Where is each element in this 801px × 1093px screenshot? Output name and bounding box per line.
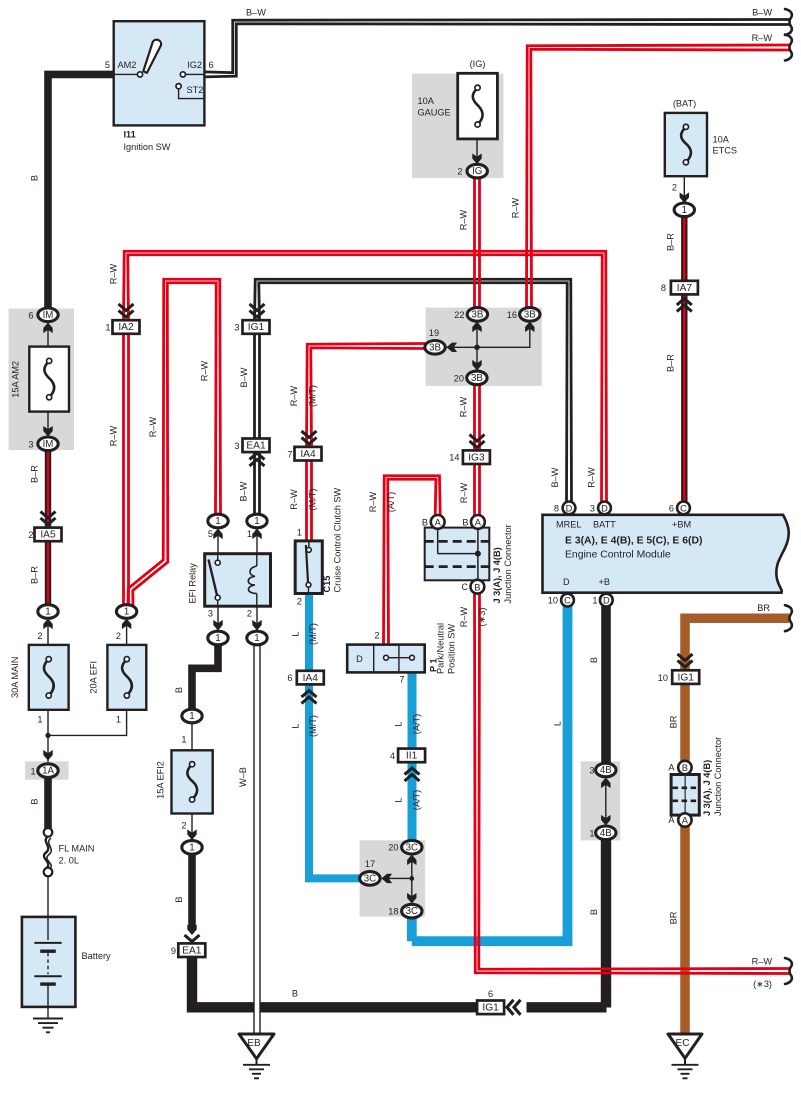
svg-text:Cruise Control Clutch SW: Cruise Control Clutch SW — [333, 488, 343, 593]
svg-text:1: 1 — [589, 829, 594, 839]
wire L (blue) from junction 18 3C down to corner — [407, 915, 417, 941]
chevrons into connector 3 IG1 — [250, 311, 265, 318]
svg-text:6: 6 — [209, 60, 214, 70]
svg-text:15A EFI2: 15A EFI2 — [156, 761, 166, 799]
svg-text:B: B — [174, 896, 184, 902]
link line oval 1 to fuse 30A MAIN — [47, 617, 49, 645]
arrow into EFI relay oval 1 (pin 1) — [252, 529, 261, 540]
arrow into connector 1A — [43, 750, 52, 761]
svg-text:R–W: R–W — [148, 416, 158, 437]
svg-text:(A/T): (A/T) — [412, 714, 422, 734]
wire BR (brown) battery feed from right edge down to connector 10 IG1 — [685, 618, 789, 671]
svg-text:B: B — [422, 517, 428, 527]
svg-text:IA5: IA5 — [40, 530, 56, 541]
ECM pin circle C (10, D terminal) — [561, 594, 574, 607]
rect connector 14 IG3 — [463, 450, 490, 464]
3B internal link 19 to junction dot to 22, 16, 20 — [446, 322, 530, 348]
arrow into oval IG below 10A GAUGE — [472, 153, 481, 164]
wire B-W from connector 3 EA1 to EFI relay pin 1 coil — [258, 452, 261, 515]
junction oval 1 4B — [596, 826, 616, 840]
arrow into junction oval 19 3B — [447, 343, 458, 352]
svg-text:R–W: R–W — [368, 491, 378, 512]
ECM pin circle D (1, +B terminal) — [600, 594, 613, 607]
svg-text:R–W: R–W — [200, 360, 210, 381]
rect connector 6 IA4 (blue) — [297, 671, 324, 685]
svg-text:B–R: B–R — [30, 465, 40, 483]
ignition switch I11 box — [114, 21, 205, 125]
link line oval 1 to fuse 20A EFI — [126, 617, 128, 645]
oval connector 6 IM — [38, 308, 58, 322]
svg-text:(A/T): (A/T) — [386, 492, 396, 512]
park/neutral position switch P1 box — [347, 645, 425, 673]
shaded box for 3C junction block — [360, 840, 426, 916]
wire L (blue) from connector 6 IA4 down and right to junction 17 3C — [309, 684, 361, 878]
rect connector 3 EA1 — [243, 439, 270, 453]
svg-text:D: D — [566, 504, 573, 514]
svg-text:IG1: IG1 — [482, 1003, 499, 1014]
svg-text:5: 5 — [208, 529, 213, 539]
ground EB triangle — [239, 1034, 274, 1059]
oval connector 1 below fuse 15A EFI2 — [182, 841, 202, 855]
svg-text:+BM: +BM — [672, 520, 691, 530]
arrow into fuse block oval 3 IM — [43, 426, 52, 437]
arrow into junction oval 16 3B — [525, 322, 534, 333]
svg-text:D: D — [563, 577, 570, 587]
wire B from fuse 15A EFI2 to connector EA1 pin 9 — [188, 851, 196, 930]
svg-text:A: A — [668, 762, 675, 772]
svg-text:IG2: IG2 — [187, 60, 202, 70]
wire L (blue) from P1 park/neutral switch pin 7 to connector 4 II1 — [408, 672, 417, 750]
svg-text:(BAT): (BAT) — [673, 99, 696, 109]
wire BR (brown) from junction connector J3/J4 oval A down to ground EC — [680, 818, 690, 1034]
wire R-W bus from connector 1 IA2 to ECM BATT — [124, 251, 607, 502]
EFI relay switch contact — [217, 554, 219, 560]
svg-text:9: 9 — [171, 946, 176, 956]
svg-text:2: 2 — [672, 183, 677, 193]
oval EFI relay pin 1 connector 1 — [247, 514, 267, 528]
svg-text:1: 1 — [254, 633, 259, 644]
svg-text:B: B — [174, 687, 184, 693]
svg-text:2: 2 — [28, 530, 33, 540]
arrow into EFI relay oval 1 (pin 3) — [213, 620, 222, 631]
shaded box for 4B junction block — [581, 761, 621, 840]
svg-text:EC: EC — [676, 1038, 690, 1049]
3C internal link 17 to junction dot to 20, 18 — [381, 877, 412, 879]
EFI relay box — [205, 554, 271, 607]
chevrons into connector 6 IG1 (black, pointing left) — [507, 1000, 514, 1015]
arrow into fuse block oval 6 IM — [43, 323, 52, 334]
svg-text:EA1: EA1 — [246, 441, 266, 452]
svg-text:C: C — [564, 596, 571, 606]
wire BR (brown) from connector 10 IG1 to junction connector J3/J4 oval B — [680, 684, 690, 769]
svg-text:D: D — [603, 596, 610, 606]
4B internal link between ovals 3 and 1 — [605, 777, 607, 826]
chevrons into connector 3 EA1 from below — [250, 453, 265, 460]
junction oval 3 4B — [596, 763, 616, 777]
svg-text:FL MAIN: FL MAIN — [59, 844, 95, 854]
svg-text:IA2: IA2 — [118, 322, 134, 333]
svg-text:B–W: B–W — [550, 467, 560, 487]
svg-text:GAUGE: GAUGE — [418, 108, 451, 118]
rect connector 10 IG1 (brown) — [672, 670, 699, 684]
svg-text:2: 2 — [116, 631, 121, 641]
svg-text:8: 8 — [554, 504, 559, 514]
oval connector IG below 10A GAUGE — [467, 164, 487, 178]
J3/J4 internal links — [437, 528, 439, 554]
wire B-R from connector 8 IA7 to ECM +BM — [681, 295, 687, 502]
link line oval 1 to fuse 15A EFI2 pin 1 — [191, 722, 193, 751]
svg-text:(M/T): (M/T) — [308, 715, 318, 737]
svg-text:II1: II1 — [406, 751, 418, 762]
fusible link FL MAIN 2.0L — [44, 828, 53, 837]
wire R-W (A/T) hairpin from J3/J4 oval A to P1 park/neutral switch pin 2 — [388, 479, 436, 646]
svg-text:R–W: R–W — [109, 263, 119, 284]
wire L (blue) from ECM pin C down to 3C junction — [412, 603, 568, 941]
svg-text:Park/Neutral: Park/Neutral — [436, 623, 446, 674]
svg-text:IA4: IA4 — [300, 449, 316, 460]
svg-text:2: 2 — [374, 631, 379, 641]
svg-text:B: B — [30, 798, 40, 804]
svg-text:B–W: B–W — [246, 8, 266, 18]
junction oval 20 3B — [467, 371, 487, 385]
junction dot below 30A MAIN — [45, 733, 50, 738]
link line EFI relay pin 2 to oval 1 — [256, 606, 258, 632]
svg-text:1: 1 — [124, 607, 129, 618]
wire B from ignition switch AM2 down to fuse block IM pin 6 — [48, 74, 115, 309]
rect connector 7 IA4 — [295, 447, 322, 461]
link line junction dot to connector 1A — [47, 735, 49, 762]
svg-text:3B: 3B — [429, 342, 441, 353]
junction connector J3/J4 box (left) — [425, 528, 490, 581]
arrow into junction oval 17 3C — [382, 874, 393, 883]
svg-text:R–W: R–W — [459, 396, 469, 417]
arrow into junction oval 20 3C — [407, 855, 416, 866]
wire R-W (M/T) from junction 19 3B to connector 7 IA4 — [311, 348, 426, 447]
C15 switch contact — [308, 541, 310, 548]
wire R-W (M/T) from connector 7 IA4 to cruise clutch switch C15 pin 1 — [310, 461, 313, 543]
svg-text:EFI Relay: EFI Relay — [188, 563, 198, 604]
wire L (blue) from connector 4 II1 to junction 20 3C — [408, 762, 417, 842]
wire R-W hairpin from EFI relay pin 5 up and back down to 20A EFI connector — [133, 283, 216, 606]
link line fuse 15A AM2 to IM 3 oval — [47, 412, 49, 438]
svg-text:BATT: BATT — [593, 520, 616, 530]
svg-text:10: 10 — [658, 673, 668, 683]
link line fuse 20A EFI to junction dot — [48, 710, 127, 736]
rect connector 9 EA1 — [178, 943, 205, 957]
J3/J4 pin circle B (to *3) — [471, 580, 485, 594]
ground EC triangle — [668, 1034, 702, 1058]
svg-text:R–W: R–W — [752, 33, 773, 43]
svg-text:BR: BR — [757, 603, 770, 613]
svg-text:R–W: R–W — [459, 482, 469, 503]
arrow into junction oval 1 4B — [601, 815, 610, 826]
svg-text:J 3(A), J 4(B): J 3(A), J 4(B) — [492, 547, 502, 603]
wire R-W from junction 20 3B to connector 14 IG3 — [478, 384, 481, 451]
svg-text:(∗3): (∗3) — [753, 979, 772, 989]
rect connector 1 IA2 — [113, 320, 140, 334]
svg-text:A: A — [435, 518, 442, 528]
wire R-W top horizontal from right edge continuation to junction 16 3B — [531, 49, 790, 308]
svg-text:15A AM2: 15A AM2 — [11, 361, 21, 398]
J3/J4 pin circle A (from IG3) — [471, 515, 485, 529]
svg-text:B–R: B–R — [666, 233, 676, 251]
svg-text:3B: 3B — [471, 310, 483, 321]
link line FL MAIN to battery — [47, 875, 49, 918]
svg-text:18: 18 — [388, 907, 398, 917]
svg-text:1: 1 — [116, 715, 121, 725]
wire B-R from fuse block IM pin 3 to connector 2 IA5 — [45, 450, 51, 528]
svg-text:ETCS: ETCS — [713, 146, 738, 156]
svg-text:16: 16 — [507, 310, 517, 320]
link line EFI relay pin 1 to oval 1 — [256, 527, 258, 554]
arrow into junction oval 20 3B — [472, 360, 481, 371]
chevrons into connector 10 IG1 (brown) — [678, 661, 693, 668]
svg-text:10A: 10A — [713, 135, 730, 145]
oval EFI relay pin 5 connector 1 — [208, 514, 228, 528]
link line EFI relay pin 5 to oval 1 — [217, 527, 219, 554]
svg-text:BR: BR — [669, 715, 679, 728]
svg-text:1: 1 — [254, 516, 259, 527]
fuse 10A ETCS — [665, 113, 707, 176]
link line fuse 15A EFI2 pin 2 to oval 1 — [191, 814, 193, 842]
engine control module ECM box — [543, 515, 789, 593]
P1 internal contact line — [388, 657, 410, 659]
svg-text:3B: 3B — [471, 373, 483, 384]
battery internal symbol — [47, 917, 49, 940]
svg-text:R–W: R–W — [459, 606, 469, 627]
rect connector 8 IA7 — [671, 281, 698, 295]
svg-text:1: 1 — [30, 766, 35, 776]
rect connector 3 IG1 — [243, 320, 270, 334]
svg-text:IM: IM — [43, 310, 54, 321]
svg-text:R–W: R–W — [289, 489, 299, 510]
svg-text:IA4: IA4 — [303, 673, 319, 684]
svg-text:B–W: B–W — [752, 8, 772, 18]
J3/J4 right pin circle B — [678, 761, 691, 774]
shaded box for 10A GAUGE fuse — [412, 74, 503, 178]
svg-text:1: 1 — [592, 596, 597, 606]
svg-text:2: 2 — [247, 609, 252, 619]
wire R-W from connector 1 IA2 down to 20A EFI connector oval 1 — [127, 334, 130, 607]
svg-text:R–W: R–W — [587, 467, 597, 488]
svg-text:A: A — [475, 518, 482, 528]
svg-text:EB: EB — [247, 1038, 261, 1049]
svg-text:R–W: R–W — [289, 385, 299, 406]
oval connector 1 above 30A MAIN — [38, 605, 58, 619]
svg-text:3C: 3C — [406, 842, 418, 853]
fuse 10A GAUGE — [458, 73, 498, 139]
svg-text:L: L — [394, 797, 404, 802]
fuse 20A EFI — [107, 645, 146, 710]
svg-text:(M/T): (M/T) — [308, 623, 318, 645]
link line fuse 30A MAIN to junction dot — [47, 710, 49, 736]
svg-text:1: 1 — [189, 843, 194, 854]
wire B-W from ignition switch IG2 to top right continuation — [205, 20, 790, 73]
svg-text:4: 4 — [390, 751, 395, 761]
svg-text:B: B — [292, 989, 298, 999]
wire B-W bus from connector 3 IG1 to ECM MREL — [255, 279, 572, 502]
svg-text:Ignition SW: Ignition SW — [124, 142, 171, 152]
ground symbol below battery — [47, 1007, 49, 1019]
svg-text:J 3(A), J 4(B): J 3(A), J 4(B) — [702, 760, 712, 816]
battery box — [22, 917, 76, 1007]
svg-text:R–W: R–W — [109, 425, 119, 446]
svg-text:C: C — [680, 504, 687, 514]
link line fuse 10A ETCS to oval 1 — [683, 176, 685, 204]
svg-text:Battery: Battery — [82, 951, 112, 961]
svg-text:+B: +B — [599, 577, 611, 587]
svg-text:2: 2 — [297, 597, 302, 607]
svg-text:1: 1 — [37, 715, 42, 725]
link line EFI relay pin 3 to oval 1 — [217, 606, 219, 632]
junction oval 16 3B — [520, 308, 540, 322]
svg-text:IG1: IG1 — [677, 672, 694, 683]
wire R-W from connector 14 IG3 to junction connector J3/J4 oval A — [478, 464, 481, 516]
svg-text:I11: I11 — [124, 130, 136, 140]
chevrons into connector 8 IA7 from below — [677, 299, 692, 306]
oval connector 1 above fuse 15A EFI2 — [182, 709, 202, 723]
wire B-R from fuse 10A ETCS oval 1 to connector 8 IA7 — [681, 216, 687, 281]
svg-text:3: 3 — [589, 766, 594, 776]
oval connector 3 IM — [38, 437, 58, 451]
svg-text:B–W: B–W — [239, 481, 249, 501]
chevrons into connector 4 II1 from below — [405, 768, 420, 775]
link line fuse 10A GAUGE to oval IG — [476, 139, 478, 165]
continuation brace BR right — [785, 605, 792, 631]
svg-text:R–W: R–W — [752, 957, 773, 967]
svg-text:B–W: B–W — [239, 367, 249, 387]
J3/J4 pin circle A (left, from P1) — [431, 515, 445, 529]
continuation brace B-W top right — [785, 9, 792, 35]
svg-text:AM2: AM2 — [118, 60, 137, 70]
cruise control clutch switch C15 box — [295, 541, 322, 594]
svg-text:5: 5 — [105, 60, 110, 70]
EFI relay coil — [256, 554, 258, 566]
svg-text:Position SW: Position SW — [447, 624, 457, 674]
svg-text:(M/T): (M/T) — [308, 385, 318, 407]
junction oval 18 3C — [402, 904, 422, 918]
svg-text:3: 3 — [234, 323, 239, 333]
svg-text:10A: 10A — [418, 96, 435, 106]
svg-text:10: 10 — [548, 596, 558, 606]
3C internal junction dot — [409, 876, 414, 881]
svg-text:14: 14 — [449, 453, 459, 463]
svg-text:BR: BR — [669, 911, 679, 924]
chevrons into connector 7 IA4 — [302, 438, 317, 445]
continuation brace R-W top right — [785, 35, 792, 61]
svg-text:1: 1 — [215, 516, 220, 527]
svg-text:6: 6 — [28, 310, 33, 320]
svg-text:Junction Connector: Junction Connector — [503, 524, 513, 603]
svg-text:D: D — [356, 654, 363, 664]
shaded box for 3B junction block — [426, 308, 542, 386]
rect connector 4 II1 — [398, 749, 425, 763]
chevrons into connector 1 IA2 — [119, 311, 134, 318]
3B internal junction dot — [474, 345, 480, 351]
svg-text:B: B — [462, 517, 468, 527]
rect connector 2 IA5 — [35, 528, 62, 542]
svg-text:B: B — [682, 763, 688, 773]
svg-text:20: 20 — [388, 843, 398, 853]
oval connector 1A — [38, 764, 58, 778]
wire B-W from connector 3 IG1 to connector 3 EA1 — [258, 334, 261, 439]
svg-text:3C: 3C — [364, 874, 376, 885]
svg-text:4B: 4B — [600, 828, 612, 839]
svg-text:1: 1 — [105, 323, 110, 333]
svg-text:7: 7 — [287, 450, 292, 460]
svg-text:(A/T): (A/T) — [412, 790, 422, 810]
svg-text:EA1: EA1 — [182, 945, 202, 956]
svg-text:30A MAIN: 30A MAIN — [10, 657, 20, 698]
svg-text:3C: 3C — [406, 906, 418, 917]
svg-text:L: L — [394, 721, 404, 726]
svg-text:17: 17 — [365, 859, 375, 869]
ECM pin circle C +BM — [677, 502, 690, 515]
svg-text:1: 1 — [247, 529, 252, 539]
rect connector 6 IG1 (black bottom) — [477, 1001, 504, 1015]
svg-text:1: 1 — [215, 633, 220, 644]
chevrons into connector 14 IG3 — [470, 441, 485, 448]
svg-text:(∗3): (∗3) — [477, 608, 487, 627]
svg-text:IG1: IG1 — [248, 322, 265, 333]
wire R-W from fuse 10A GAUGE oval IG to junction 22 3B — [478, 178, 481, 309]
junction oval 17 3C — [360, 872, 380, 886]
chevron below arrow above connector 9 EA1 — [185, 935, 200, 942]
svg-text:2: 2 — [181, 821, 186, 831]
wire W-B from EFI relay pin 2 down to ground EB — [253, 641, 260, 1034]
svg-text:B–R: B–R — [30, 566, 40, 584]
ECM pin circle D BATT — [598, 502, 611, 515]
svg-text:7: 7 — [399, 675, 404, 685]
ECM pin circle D MREL — [563, 502, 576, 515]
svg-text:B: B — [30, 175, 40, 181]
svg-text:1: 1 — [682, 205, 687, 216]
wire B from EFI relay pin 3 to fuse 15A EFI2 — [192, 641, 218, 712]
svg-text:6: 6 — [488, 989, 493, 999]
svg-text:A: A — [668, 815, 675, 825]
fuse 30A MAIN — [29, 645, 69, 710]
shaded box for 15A AM2 fuse — [9, 309, 75, 450]
svg-text:1: 1 — [181, 735, 186, 745]
svg-text:ST2: ST2 — [187, 85, 204, 95]
svg-text:6: 6 — [287, 673, 292, 683]
svg-text:1: 1 — [297, 528, 302, 538]
svg-text:3: 3 — [28, 439, 33, 449]
svg-text:1: 1 — [189, 711, 194, 722]
oval connector 1 below 10A ETCS — [674, 203, 694, 217]
svg-text:3B: 3B — [524, 310, 536, 321]
svg-text:20: 20 — [454, 374, 464, 384]
svg-text:MREL: MREL — [556, 520, 582, 530]
wire B from connector 1A to fusible link FL MAIN — [44, 778, 52, 829]
arrow into junction oval 3 4B — [601, 778, 610, 789]
svg-text:3: 3 — [234, 441, 239, 451]
svg-text:IA7: IA7 — [677, 283, 693, 294]
junction connector J3/J4 box (right) — [671, 775, 699, 816]
svg-text:C: C — [461, 582, 468, 592]
svg-text:L: L — [291, 723, 301, 728]
arrow into junction oval 18 3C — [407, 893, 416, 904]
svg-text:1A: 1A — [42, 766, 54, 777]
arrow into junction oval 22 3B — [472, 322, 481, 333]
junction oval 20 3C — [402, 840, 422, 854]
svg-text:(M/T): (M/T) — [308, 489, 318, 511]
chevrons into connector 2 IA5 — [41, 518, 56, 525]
svg-text:A: A — [682, 816, 689, 826]
arrow into EFI relay oval 1 (pin 5) — [213, 529, 222, 540]
continuation brace R-W bottom right — [785, 958, 792, 984]
svg-text:D: D — [601, 504, 608, 514]
